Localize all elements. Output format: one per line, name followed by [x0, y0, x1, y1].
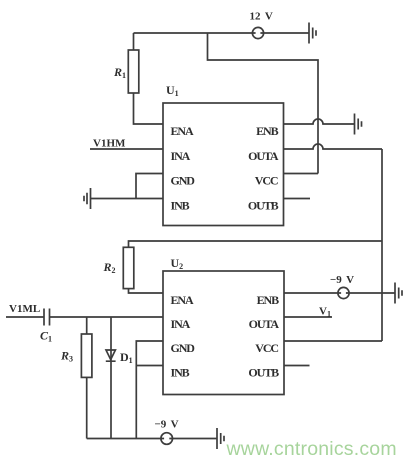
ground left of U1	[84, 188, 91, 209]
power source 12V circle	[252, 27, 263, 38]
pin label OUTA U2	[249, 317, 280, 331]
svg-text:C1: C1	[40, 329, 52, 344]
label V1HM	[93, 138, 126, 150]
label C1	[40, 329, 52, 344]
pin label GND U2	[171, 341, 196, 355]
svg-text:OUTA: OUTA	[248, 149, 279, 163]
svg-text:D1: D1	[120, 350, 133, 365]
capacitor C1	[44, 309, 50, 326]
svg-text:U1: U1	[166, 83, 179, 98]
wire -9V bottom rail	[87, 438, 217, 440]
pin label INB U1	[171, 199, 190, 213]
wire top 12V rail	[134, 32, 310, 34]
resistor R3	[81, 334, 92, 377]
label V1ML	[9, 303, 40, 315]
pin label ENB U1	[256, 124, 278, 138]
pin label OUTA U1	[248, 149, 279, 163]
svg-text:V1ML: V1ML	[9, 303, 40, 315]
wire R1 top	[133, 33, 135, 50]
label R2	[103, 260, 116, 275]
svg-text:ENB: ENB	[256, 124, 278, 138]
svg-text:ENB: ENB	[257, 293, 279, 307]
svg-text:VCC: VCC	[255, 174, 278, 188]
wire INB of U2	[136, 365, 163, 367]
svg-text:V1: V1	[319, 306, 331, 319]
svg-text:−9 V: −9 V	[155, 419, 179, 431]
pin label ENA U1	[171, 124, 194, 138]
watermark www.cntronics.com	[226, 438, 397, 460]
wire ENB of U1 with hop to ground	[284, 119, 355, 124]
pin label ENA U2	[171, 293, 194, 307]
svg-text:www.cntronics.com: www.cntronics.com	[226, 438, 397, 460]
wire OUTB stub of U2	[284, 365, 310, 367]
wire INB of U1 to ground	[91, 198, 164, 200]
svg-text:12 V: 12 V	[250, 11, 273, 23]
ground right of ENB U1	[355, 114, 362, 135]
resistor R2	[123, 247, 134, 288]
pin label INA U2	[171, 317, 191, 331]
pin label VCC U2	[255, 341, 278, 355]
svg-text:GND: GND	[171, 341, 196, 355]
label 12 V	[250, 11, 273, 23]
wire R3 top	[86, 317, 88, 334]
resistor R1	[128, 50, 139, 93]
pin label OUTB U2	[248, 366, 279, 380]
pin label INB U2	[171, 366, 190, 380]
ground top-right	[309, 23, 316, 44]
svg-text:INB: INB	[171, 199, 190, 213]
svg-text:R2: R2	[103, 260, 116, 275]
pin label INA U1	[171, 149, 191, 163]
wire R1 bottom to ENA of U1	[134, 93, 164, 124]
wire OUTA stub of U2 (V1 output)	[284, 316, 332, 318]
label V1 output	[319, 306, 331, 319]
pin label ENB U2	[257, 293, 279, 307]
svg-text:U2: U2	[171, 256, 184, 271]
wire V1HM to INA of U1	[90, 148, 163, 150]
svg-text:OUTB: OUTB	[248, 366, 279, 380]
wire right vertical bus	[381, 149, 383, 341]
op-amp U1 body	[163, 103, 284, 226]
svg-text:−9 V: −9 V	[330, 274, 354, 286]
pin label OUTB U1	[248, 199, 279, 213]
label U1	[166, 83, 179, 98]
wire VCC of U1	[284, 173, 319, 175]
wire OUTA of U1 with hop to right bus	[284, 144, 383, 149]
label -9 V bottom	[155, 419, 179, 431]
ground right of ENB U2	[395, 283, 402, 304]
power source -9V right circle	[338, 287, 349, 298]
wire GND bracket of U1	[136, 174, 163, 199]
wire C1 to INA of U2	[50, 316, 164, 318]
wire R2 bottom to ENA of U2	[129, 289, 164, 293]
svg-text:VCC: VCC	[255, 341, 278, 355]
svg-text:INA: INA	[171, 317, 191, 331]
wire from 12V rail down to VCC feed	[208, 33, 319, 174]
power source -9V bottom circle	[161, 433, 173, 445]
svg-text:R1: R1	[113, 65, 126, 80]
wire OUTB stub of U1	[284, 198, 311, 200]
label -9 V right	[330, 274, 354, 286]
svg-text:V1HM: V1HM	[93, 138, 126, 150]
label R1	[113, 65, 126, 80]
label U2	[171, 256, 184, 271]
pin label VCC U1	[255, 174, 278, 188]
svg-text:OUTA: OUTA	[249, 317, 280, 331]
diode D1	[106, 350, 116, 361]
wire R2 top from bus	[129, 241, 383, 247]
wire R3 bottom to -9V rail	[86, 377, 88, 438]
op-amp U2 body	[163, 271, 284, 395]
wire VCC of U2 from bus	[284, 340, 382, 342]
svg-text:ENA: ENA	[171, 293, 194, 307]
ground bottom	[217, 428, 224, 449]
wire V1ML input	[6, 316, 44, 318]
svg-text:INB: INB	[171, 366, 190, 380]
wire ENB of U2 to -9V and ground	[284, 292, 395, 294]
svg-text:OUTB: OUTB	[248, 199, 279, 213]
svg-text:INA: INA	[171, 149, 191, 163]
svg-text:GND: GND	[171, 174, 196, 188]
label D1	[120, 350, 133, 365]
svg-text:R3: R3	[60, 349, 73, 364]
svg-text:ENA: ENA	[171, 124, 194, 138]
wire GND bracket of U2 down to -9V rail	[136, 341, 163, 439]
pin label GND U1	[171, 174, 196, 188]
wire D1 branch	[110, 317, 112, 439]
label R3	[60, 349, 73, 364]
